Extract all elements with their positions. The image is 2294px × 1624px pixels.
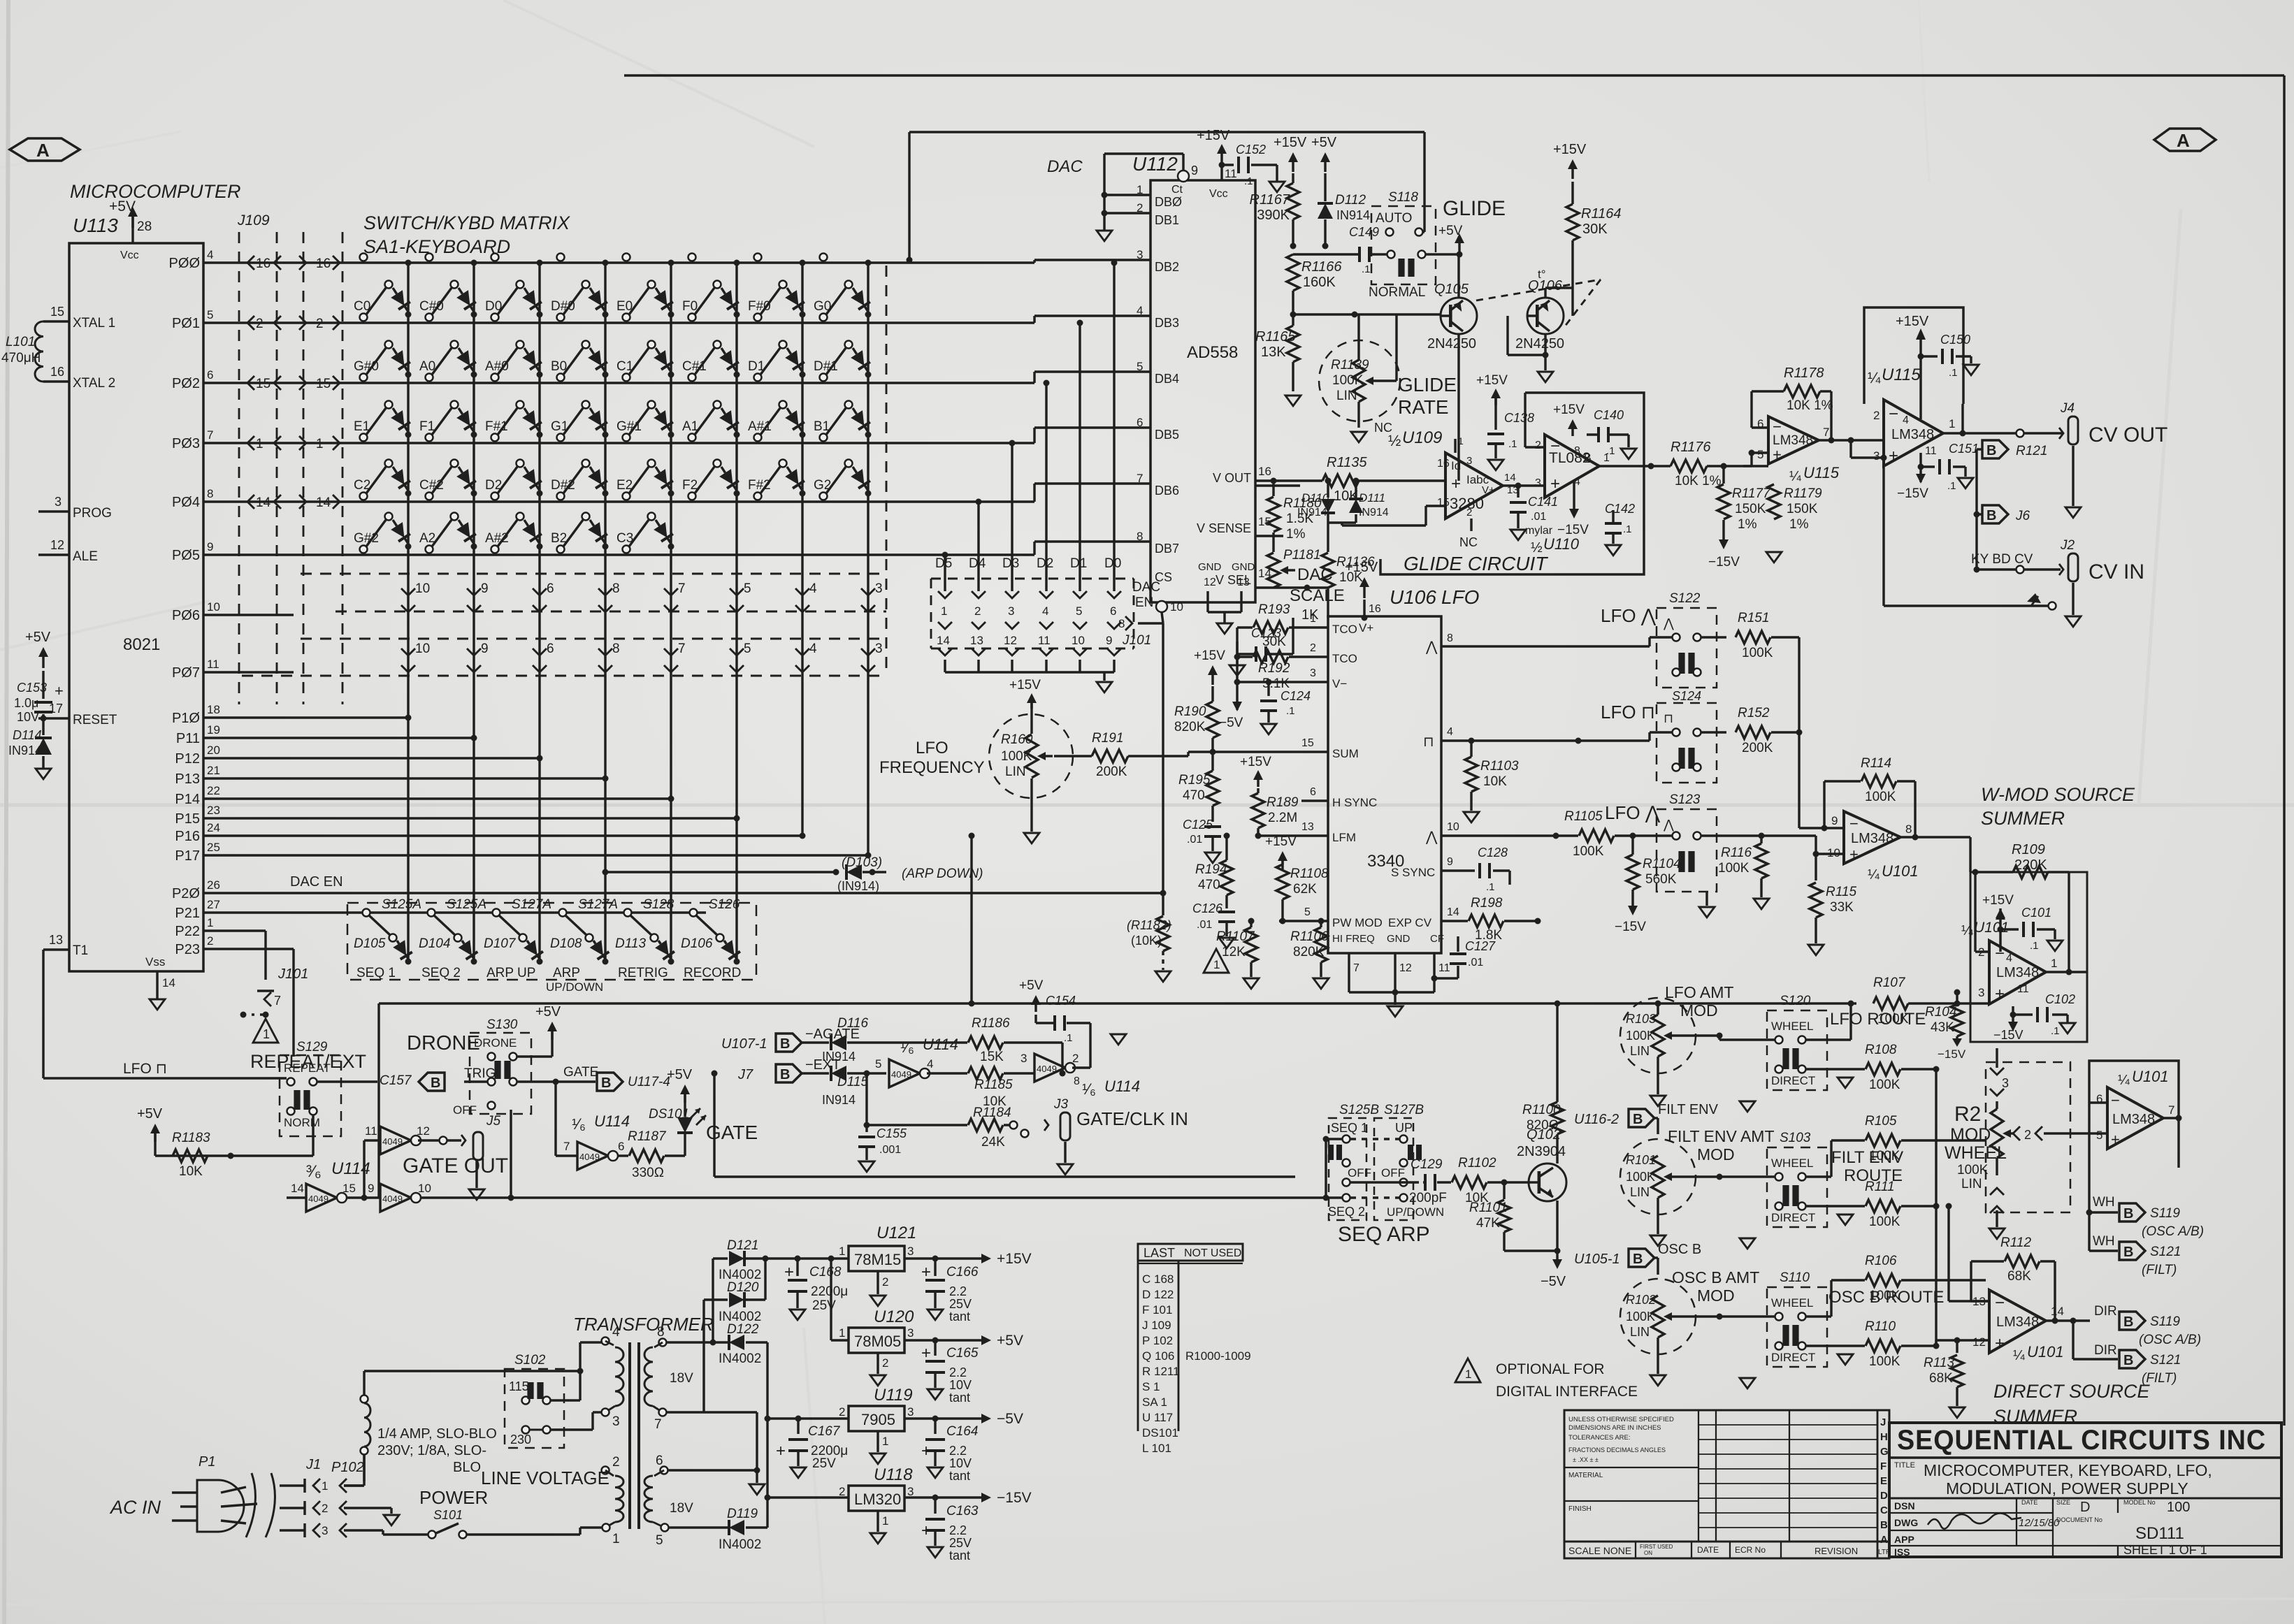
matrix row P00 contact [426, 254, 433, 261]
svg-text:R1100: R1100 [1522, 1103, 1561, 1117]
svg-text:EN: EN [1135, 595, 1153, 610]
svg-text:P15: P15 [175, 811, 200, 827]
gate logic box [377, 1003, 380, 1198]
svg-text:10: 10 [415, 581, 430, 596]
svg-text:10: 10 [1072, 634, 1085, 647]
svg-text:SUM: SUM [1332, 747, 1359, 760]
wire P23 down [203, 948, 294, 950]
svg-text:LFO ⊓: LFO ⊓ [1601, 702, 1655, 723]
svg-text:C157: C157 [380, 1073, 412, 1088]
svg-text:V+: V+ [1359, 621, 1373, 635]
key switch+diode C0 [360, 314, 368, 321]
svg-text:1: 1 [882, 1514, 888, 1528]
wire P13 to matrix bus [203, 777, 605, 779]
svg-text:.01: .01 [1531, 511, 1546, 523]
svg-text:PØ6: PØ6 [172, 608, 200, 623]
svg-text:GND: GND [1198, 561, 1222, 573]
svg-text:B: B [431, 1075, 440, 1091]
svg-text:1.8K: 1.8K [1475, 928, 1502, 943]
mode switch dashed box [347, 903, 756, 980]
wire flags vertical [1975, 449, 1977, 570]
svg-text:C140: C140 [1594, 408, 1624, 422]
-15V U110 pin4 [1573, 482, 1575, 510]
capacitor C141 .01 mylar [1517, 486, 1519, 498]
svg-text:F0: F0 [682, 299, 698, 314]
svg-text:Vcc: Vcc [120, 249, 139, 261]
ground transformer secondary [756, 1470, 758, 1483]
svg-text:S125A: S125A [447, 897, 486, 912]
connector J1/P102 pin 1 [280, 1484, 305, 1486]
svg-text:12: 12 [417, 1124, 430, 1138]
svg-text:C152: C152 [1236, 143, 1266, 157]
svg-text:U107-1: U107-1 [721, 1036, 767, 1052]
pin 13 T1 [43, 948, 69, 950]
matrix column bus 2 [472, 263, 475, 963]
svg-text:.1: .1 [2030, 940, 2039, 952]
svg-text:C3: C3 [616, 531, 633, 546]
svg-text:5: 5 [875, 1057, 881, 1071]
svg-text:B0: B0 [551, 359, 567, 374]
svg-text:5: 5 [1304, 906, 1311, 918]
svg-text:7: 7 [1823, 426, 1829, 439]
svg-text:12: 12 [1204, 577, 1216, 588]
svg-text:LIN: LIN [1005, 764, 1026, 779]
svg-text:D104: D104 [419, 936, 450, 951]
matrix column bus 6 [735, 263, 737, 963]
svg-text:18V: 18V [670, 1501, 693, 1516]
J101 dashed crossing line 1 [301, 573, 886, 575]
mod wheel bottom connector [1990, 1188, 2004, 1195]
key switch+diode D#1 [820, 374, 828, 382]
svg-text:+5V: +5V [137, 1106, 163, 1122]
svg-text:SUMMER: SUMMER [1981, 808, 2065, 829]
svg-text:D113: D113 [615, 936, 646, 951]
svg-text:820K: 820K [1174, 720, 1206, 734]
svg-text:R104: R104 [1925, 1005, 1956, 1020]
key switch+diode F0 [688, 314, 696, 321]
bus connector arrows 7 [664, 588, 678, 595]
svg-text:7: 7 [274, 994, 281, 1008]
svg-text:U110: U110 [1543, 535, 1580, 553]
svg-text:A#0: A#0 [485, 359, 509, 374]
svg-text:16: 16 [256, 256, 270, 271]
svg-text:Ct: Ct [1171, 184, 1183, 196]
svg-text:KY BD CV: KY BD CV [1971, 552, 2033, 567]
wire P1Ø to matrix bus [203, 716, 408, 718]
wire U115b output to J4 [1943, 432, 2062, 434]
+5V output [981, 1335, 991, 1345]
svg-text:LAST: LAST [1144, 1246, 1175, 1260]
matrix row P00 contact [754, 254, 762, 261]
J101 dashed crossing line 4 [242, 675, 886, 677]
switch S102 dashed box [505, 1369, 564, 1448]
matrix row P00 contact [688, 254, 696, 261]
svg-text:IN914: IN914 [8, 744, 42, 757]
capacitor C102 .1 [2010, 1012, 2017, 1018]
diode D122 IN4002 [667, 1341, 728, 1343]
wire U110 out [1599, 465, 1671, 467]
svg-text:C0: C0 [354, 299, 370, 314]
svg-text:5: 5 [656, 1533, 663, 1548]
svg-text:SCALE: SCALE [1290, 586, 1345, 605]
svg-text:100K: 100K [1869, 1078, 1900, 1092]
resistor R1104 560K [1626, 855, 1639, 890]
bus connector arrows 10 [401, 588, 415, 595]
svg-text:DB5: DB5 [1155, 428, 1179, 442]
svg-text:5: 5 [744, 641, 751, 656]
+5V at C154 [1034, 1001, 1037, 1012]
svg-text:150K: 150K [1735, 502, 1766, 516]
svg-text:⋀: ⋀ [1425, 829, 1438, 845]
svg-text:R116: R116 [1721, 846, 1752, 860]
key switch+diode G2 [820, 493, 828, 500]
svg-text:DIR: DIR [2094, 1304, 2117, 1319]
resistor R1183 10K [173, 1150, 208, 1162]
op-amp U101b LM348 wmod [1989, 941, 2046, 1004]
svg-text:78M15: 78M15 [854, 1251, 901, 1268]
resistor R115 33K [1810, 883, 1822, 918]
svg-text:D111: D111 [1359, 491, 1385, 505]
svg-text:.01: .01 [1197, 919, 1212, 931]
svg-text:MODULATION, POWER SUPPLY: MODULATION, POWER SUPPLY [1946, 1479, 2188, 1498]
ground at C152 [1276, 165, 1278, 182]
diode D120 IN4002 [704, 1298, 728, 1300]
svg-text:150K: 150K [1787, 502, 1818, 516]
svg-text:3: 3 [2002, 1076, 2009, 1090]
warning triangle optional [1204, 949, 1229, 973]
svg-text:−EXT: −EXT [805, 1057, 841, 1073]
svg-text:OFF: OFF [1348, 1166, 1371, 1180]
svg-text:LINE VOLTAGE: LINE VOLTAGE [481, 1467, 609, 1488]
page frame right border [2283, 75, 2285, 1426]
svg-text:+15V: +15V [1274, 135, 1307, 150]
J109 arrows row P04 [247, 495, 254, 509]
svg-text:P21: P21 [175, 906, 200, 921]
IC U113 (8021) [69, 243, 203, 971]
svg-text:C164: C164 [946, 1424, 978, 1439]
svg-text:+5V: +5V [1438, 224, 1463, 238]
wire P07 stub [203, 671, 294, 673]
svg-text:DB3: DB3 [1155, 316, 1179, 330]
svg-text:1: 1 [316, 437, 324, 451]
bus connector arrows 9 [467, 588, 481, 595]
transformer primary winding upper [602, 1337, 609, 1345]
key switch+diode C1 [623, 374, 630, 382]
switch S120 dashed box [1767, 1010, 1827, 1090]
svg-text:C128: C128 [1478, 846, 1508, 860]
U106 pin 13 LFM [1279, 834, 1328, 836]
U106 pin 3 V- [1301, 681, 1328, 683]
svg-text:G: G [1880, 1446, 1889, 1458]
svg-text:DWG: DWG [1894, 1517, 1918, 1528]
svg-text:RESET: RESET [73, 713, 117, 727]
svg-text:R1104: R1104 [1643, 857, 1681, 871]
svg-text:23: 23 [207, 804, 220, 817]
svg-text:2: 2 [2024, 1128, 2031, 1142]
svg-text:+5V: +5V [1019, 978, 1044, 993]
svg-text:SEQ: SEQ [1338, 1223, 1382, 1246]
svg-text:100K: 100K [1626, 1170, 1655, 1184]
svg-text:−: − [2111, 1092, 2120, 1109]
svg-text:10V: 10V [949, 1456, 972, 1470]
svg-text:R1184: R1184 [973, 1105, 1011, 1120]
wire U106 pin10 to R1105 [1461, 834, 1578, 836]
wire fuse to P102 pin1 [344, 1484, 364, 1486]
key switch+diode E1 [360, 434, 368, 442]
J101 dashed crossing line 2 [336, 611, 886, 613]
svg-text:DAC EN: DAC EN [290, 874, 343, 890]
svg-text:16: 16 [1258, 465, 1271, 478]
svg-text:.001: .001 [879, 1144, 901, 1156]
svg-text:GATE OUT: GATE OUT [403, 1154, 508, 1177]
svg-text:S118: S118 [1388, 190, 1418, 205]
svg-text:10K 1%: 10K 1% [1675, 474, 1722, 488]
svg-text:S127B: S127B [1384, 1103, 1424, 1117]
svg-text:R109: R109 [2012, 842, 2045, 857]
svg-text:SEQ 1: SEQ 1 [1331, 1121, 1368, 1135]
feedback R112 wire [1971, 1300, 1989, 1302]
svg-text:S120: S120 [1780, 994, 1811, 1008]
wire gate to W-MOD pin3 [379, 1002, 1856, 1004]
svg-text:−: − [1550, 437, 1560, 456]
svg-text:FILT ENV AMT: FILT ENV AMT [1668, 1127, 1775, 1145]
svg-text:S102: S102 [514, 1353, 546, 1368]
svg-text:E: E [1880, 1475, 1887, 1487]
svg-text:DIGITAL INTERFACE: DIGITAL INTERFACE [1496, 1384, 1638, 1400]
svg-text:9: 9 [1106, 634, 1112, 647]
svg-text:DRONE: DRONE [407, 1032, 480, 1054]
svg-text:1%: 1% [1286, 527, 1306, 542]
svg-text:SD111: SD111 [2135, 1524, 2184, 1543]
ground below R160 [1030, 778, 1032, 832]
svg-text:R1164: R1164 [1581, 206, 1621, 222]
svg-text:+5V: +5V [25, 630, 51, 645]
svg-text:7: 7 [2168, 1103, 2174, 1117]
wire R105 to mod wheel [1986, 1140, 1997, 1141]
key switch+diode D1 [754, 374, 762, 382]
wire U101b pin2 loop [1975, 950, 1989, 952]
svg-text:GND: GND [1387, 933, 1411, 945]
diode D119 IN4002 [669, 1526, 728, 1528]
capacitor C125 .01 [1211, 806, 1213, 822]
wire trig to gate flag [517, 1080, 596, 1082]
svg-text:3: 3 [1137, 248, 1143, 261]
svg-text:.1: .1 [1949, 367, 1958, 379]
svg-text:tant: tant [949, 1310, 970, 1324]
key switch+diode A#0 [491, 374, 499, 382]
svg-text:8: 8 [207, 487, 213, 500]
wire D1 vertical [1079, 323, 1081, 573]
svg-text:MICROCOMPUTER: MICROCOMPUTER [70, 181, 241, 202]
svg-text:10V: 10V [949, 1378, 972, 1392]
key switch+diode G0 [820, 314, 828, 321]
mode switch S127A / diode D107 (ARP UP) [493, 909, 500, 917]
svg-text:+15V: +15V [1982, 893, 2014, 908]
svg-text:R191: R191 [1092, 731, 1123, 746]
ground below mod wheel [1989, 1228, 2005, 1239]
svg-text:(OSC A/B): (OSC A/B) [2139, 1333, 2201, 1347]
svg-text:4: 4 [207, 248, 213, 261]
wire primary top [364, 1370, 580, 1372]
capacitor C150 .1 [1918, 354, 1924, 360]
svg-text:FREQUENCY: FREQUENCY [879, 758, 985, 777]
svg-text:−5V: −5V [997, 1411, 1023, 1427]
svg-text:F: F [1880, 1460, 1887, 1472]
svg-text:G#1: G#1 [616, 419, 642, 434]
svg-text:D2: D2 [485, 478, 502, 493]
op-amp U101d LM348 direct summer [1989, 1290, 2046, 1353]
svg-text:S122: S122 [1669, 591, 1701, 606]
wire CS to DAC EN [1162, 612, 1163, 623]
svg-text:D5: D5 [935, 556, 952, 571]
svg-text:D106: D106 [681, 936, 713, 951]
svg-text:U105-1: U105-1 [1574, 1252, 1620, 1267]
svg-text:−15V: −15V [1615, 920, 1646, 934]
resistor R194 470 [1220, 860, 1233, 895]
svg-text:OSC B AMT: OSC B AMT [1672, 1268, 1759, 1286]
U120 ground pin 2 [877, 1353, 879, 1374]
switch S125B dashed box [1329, 1118, 1366, 1220]
S125B SEQ2 contact [1343, 1194, 1350, 1202]
svg-text:100: 100 [2167, 1500, 2190, 1515]
svg-text:1: 1 [612, 1532, 620, 1546]
glide circuit box [1380, 393, 1644, 574]
svg-text:100K: 100K [1626, 1310, 1655, 1324]
svg-text:S123: S123 [1669, 792, 1701, 807]
svg-text:4049: 4049 [382, 1136, 403, 1147]
svg-text:J: J [1880, 1416, 1886, 1428]
svg-text:R198: R198 [1471, 896, 1503, 911]
svg-text:SEQ 2: SEQ 2 [1328, 1205, 1365, 1219]
svg-text:WHEEL: WHEEL [1771, 1157, 1813, 1170]
matrix column bus 4 [604, 263, 606, 963]
svg-text:S128: S128 [643, 897, 675, 912]
svg-text:8: 8 [1118, 617, 1125, 630]
transistor Q105 2N4250 [1441, 298, 1477, 334]
svg-text:R1186: R1186 [972, 1016, 1010, 1031]
svg-text:D115: D115 [837, 1075, 868, 1089]
svg-text:+15V: +15V [1476, 373, 1508, 388]
svg-text:7: 7 [654, 1417, 662, 1432]
svg-text:100K: 100K [1865, 790, 1896, 804]
wire R1166 to base rail [1292, 291, 1294, 314]
-15V below U115b [1919, 453, 1921, 482]
wire P11 to matrix bus [203, 737, 474, 739]
svg-text:+15V: +15V [1197, 128, 1230, 143]
svg-text:R1167: R1167 [1250, 192, 1290, 208]
svg-text:−5V: −5V [1219, 716, 1243, 730]
svg-text:6: 6 [547, 581, 554, 596]
ground power [384, 1515, 399, 1525]
wire P16 to gate box [970, 836, 972, 1003]
matrix row P00 contact [820, 254, 828, 261]
wire OFF row to C129 [1350, 1181, 1419, 1183]
svg-text:7: 7 [1137, 472, 1143, 485]
svg-text:230: 230 [510, 1433, 531, 1447]
wire gate-out rail [413, 1197, 418, 1198]
svg-text:10K: 10K [1483, 774, 1507, 789]
svg-text:3: 3 [907, 1405, 914, 1419]
svg-text:PØ4: PØ4 [172, 495, 200, 510]
svg-text:XTAL 2: XTAL 2 [73, 376, 115, 391]
svg-text:B: B [601, 1075, 611, 1091]
svg-text:LM348: LM348 [1851, 831, 1893, 846]
resistor R1176 10K 1% [1671, 460, 1707, 472]
svg-text:2: 2 [1535, 440, 1541, 451]
key switch+diode D#2 [557, 493, 565, 500]
wire U101a pin10 [1816, 853, 1844, 855]
svg-text:470: 470 [1198, 878, 1220, 892]
svg-text:MOD: MOD [1697, 1145, 1735, 1163]
svg-text:LFO ROUTE: LFO ROUTE [1830, 1010, 1926, 1029]
wire transformer term4 [580, 1341, 603, 1343]
key switch+diode F2 [688, 493, 696, 500]
svg-text:D114: D114 [13, 728, 42, 742]
svg-text:FILT ENV: FILT ENV [1658, 1102, 1719, 1117]
svg-text:¼: ¼ [1868, 369, 1881, 386]
U106 pin 15 SUM [1278, 751, 1328, 753]
+15V output [981, 1254, 991, 1263]
svg-text:⋀: ⋀ [1663, 818, 1674, 832]
svg-text:R1102: R1102 [1458, 1156, 1496, 1170]
svg-text:R114: R114 [1861, 756, 1891, 771]
wire U106 pin4 to S124 [1461, 739, 1650, 741]
resistor R1186 15K [968, 1036, 1003, 1049]
U106 pin 8 (triangle out) [1441, 645, 1461, 647]
wire row P05 to DAC DB7 [203, 553, 1034, 556]
ground below R1165 [1292, 362, 1294, 391]
resistor R108 100K [1806, 1068, 1826, 1070]
svg-text:+: + [1550, 474, 1560, 493]
svg-text:1%: 1% [1789, 517, 1809, 532]
svg-text:14: 14 [291, 1182, 304, 1195]
key switch+diode B1 [820, 434, 828, 442]
wire D0 vertical [1113, 263, 1115, 573]
S122 contacts [1673, 634, 1680, 641]
resistor R1166 160K [1287, 254, 1299, 291]
+15V at R190 [1211, 671, 1213, 685]
+15V at R1108 [1281, 857, 1283, 869]
svg-text:DAC: DAC [1047, 157, 1083, 176]
mode switch S126 / diode D106 (RECORD) [690, 909, 698, 917]
key switch+diode A#1 [754, 434, 762, 442]
svg-text:+15V: +15V [1345, 560, 1378, 575]
svg-text:RATE: RATE [1398, 396, 1449, 418]
diodes D110 D111 IN914 [1325, 478, 1332, 484]
svg-text:26: 26 [207, 878, 220, 892]
warning triangle optional note [1455, 1358, 1480, 1382]
wire waveform sum vertical [1798, 637, 1800, 828]
svg-text:GATE/CLK IN: GATE/CLK IN [1076, 1108, 1188, 1129]
svg-text:R121: R121 [2016, 444, 2047, 458]
diode D114 IN914 [42, 718, 44, 735]
svg-text:11: 11 [365, 1124, 377, 1138]
svg-text:R110: R110 [1865, 1319, 1896, 1334]
U106 pin 14 EXP CV [1441, 920, 1461, 922]
svg-text:470: 470 [1183, 788, 1205, 803]
svg-text:S SYNC: S SYNC [1391, 866, 1435, 879]
svg-text:G#2: G#2 [354, 531, 379, 546]
svg-text:B: B [1986, 508, 1996, 523]
svg-text:¼: ¼ [1789, 469, 1801, 484]
svg-text:12: 12 [1399, 962, 1412, 974]
svg-text:⋀: ⋀ [1663, 616, 1674, 630]
svg-text:R1185: R1185 [974, 1078, 1013, 1092]
wire direct bus vertical [1935, 1069, 1937, 1346]
resistor R1184 24K [866, 1124, 867, 1126]
U106 pin 5 PW MOD [1279, 920, 1328, 922]
svg-text:LIN: LIN [1630, 1185, 1650, 1199]
